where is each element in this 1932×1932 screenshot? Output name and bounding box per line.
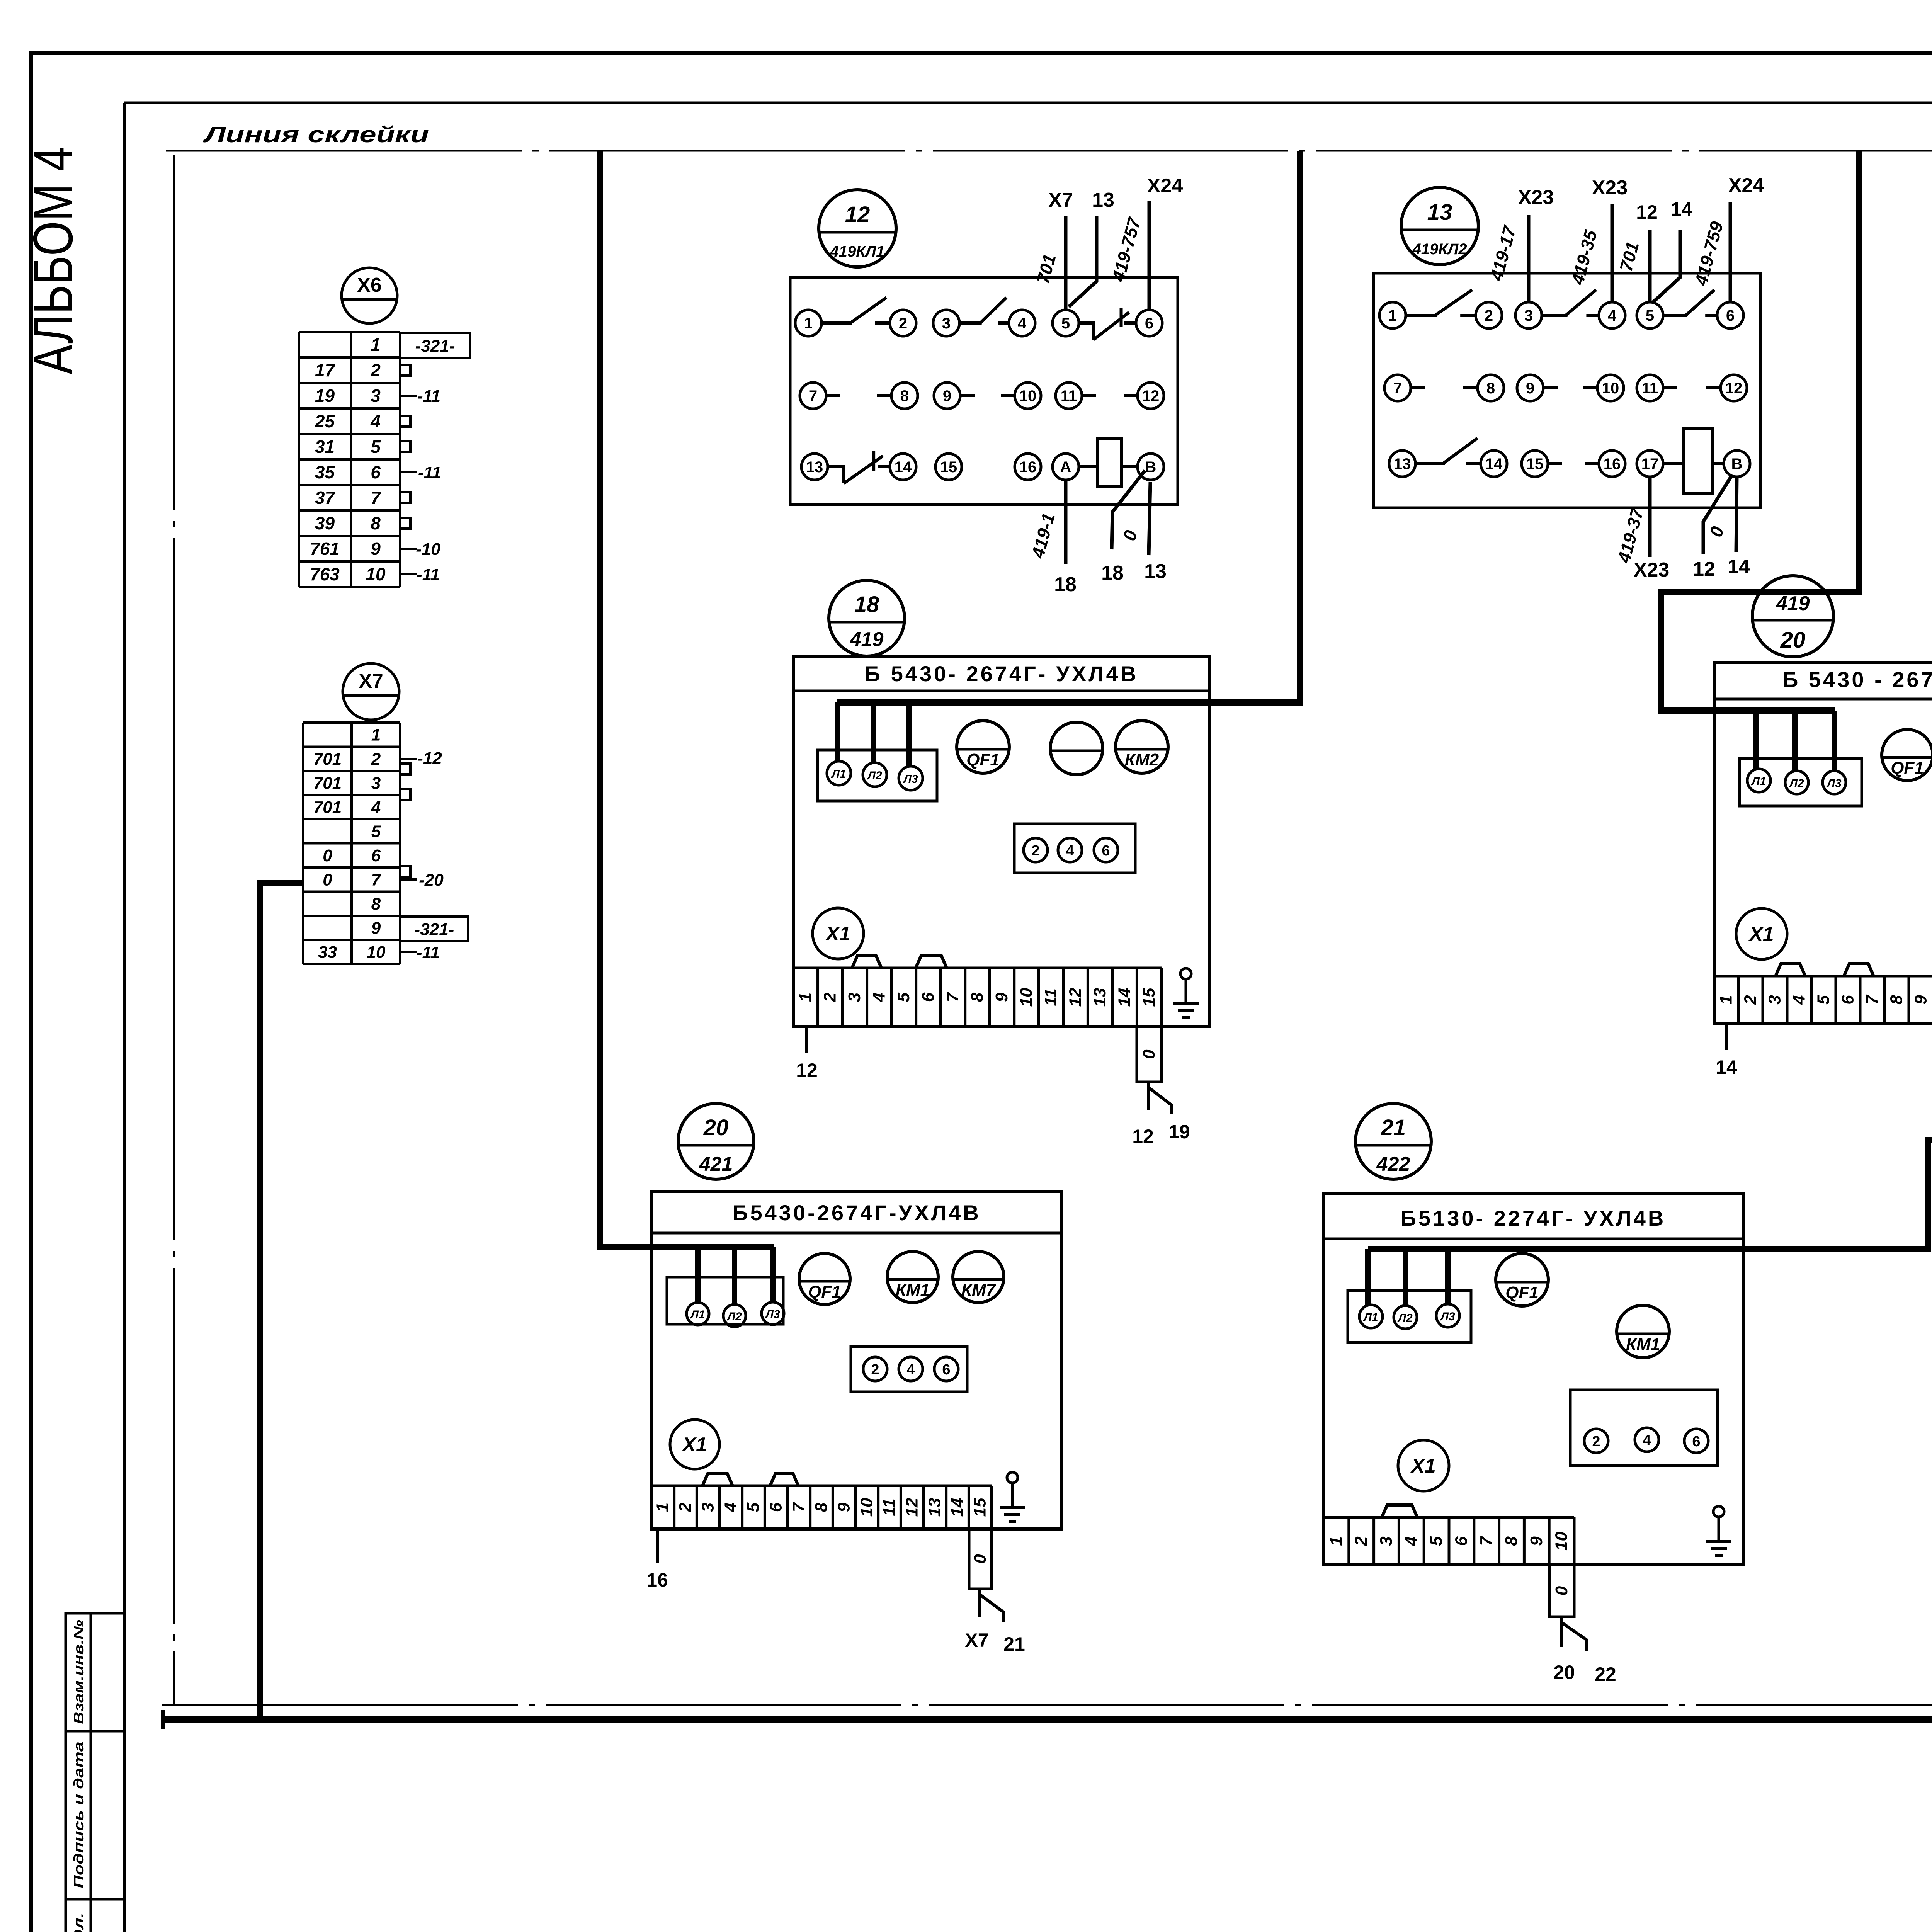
relay 13 contact 3-4 [1542, 314, 1568, 317]
svg-text:22: 22 [1595, 1663, 1616, 1685]
svg-text:7: 7 [1863, 994, 1882, 1005]
svg-text:QF1: QF1 [808, 1282, 841, 1301]
svg-text:6: 6 [1145, 315, 1153, 332]
svg-text:2: 2 [1352, 1536, 1371, 1546]
svg-text:14: 14 [1728, 556, 1750, 578]
svg-text:13: 13 [1092, 189, 1114, 211]
svg-text:4: 4 [721, 1503, 740, 1512]
relay 12 wire B down (0) to 13 [1149, 482, 1150, 555]
svg-text:B: B [1145, 459, 1156, 476]
svg-text:6: 6 [1692, 1434, 1700, 1450]
svg-text:КМ7: КМ7 [961, 1281, 997, 1299]
svg-text:X7: X7 [965, 1629, 988, 1651]
svg-text:АЛЬБОМ 4: АЛЬБОМ 4 [22, 146, 84, 374]
svg-text:X23: X23 [1518, 186, 1554, 209]
starter box 18/419 neutral wires [1147, 1082, 1150, 1110]
svg-text:8: 8 [1486, 380, 1495, 397]
glue line vertical left [173, 155, 175, 885]
svg-text:-321-: -321- [415, 920, 454, 939]
svg-text:0: 0 [323, 870, 332, 889]
svg-text:Л2: Л2 [867, 769, 882, 782]
starter box 419/20 body [1714, 662, 1932, 1024]
svg-text:3: 3 [1524, 307, 1533, 324]
svg-text:Л3: Л3 [765, 1308, 780, 1321]
svg-text:-11: -11 [417, 943, 440, 962]
starter box 21/422 circle QF1 [1496, 1253, 1548, 1306]
svg-text:11: 11 [880, 1498, 899, 1516]
starter box 21/422 terminal strip [1324, 1516, 1574, 1519]
svg-text:0: 0 [971, 1554, 990, 1564]
glue line horizontal bottom [162, 1704, 1932, 1706]
starter box 20/421 ground symbol [1007, 1472, 1018, 1483]
wire to box 419/20 via 419/20 node [1661, 151, 1859, 711]
svg-text:14: 14 [1485, 456, 1503, 473]
starter box 18/419 circle aux [1050, 722, 1103, 775]
svg-text:2: 2 [1485, 307, 1493, 324]
starter box 21/422 header [1324, 1238, 1743, 1240]
X7 tag -11 row10 [400, 951, 417, 953]
svg-text:14: 14 [1716, 1056, 1737, 1078]
svg-text:3: 3 [1377, 1536, 1396, 1546]
connector X7 circle [343, 663, 399, 720]
svg-text:Л2: Л2 [726, 1310, 742, 1323]
svg-text:6: 6 [1102, 843, 1110, 859]
relay 13 contact 1-2 [1406, 314, 1437, 317]
svg-text:5: 5 [1646, 307, 1654, 324]
svg-text:5: 5 [1814, 995, 1833, 1005]
svg-text:20: 20 [1780, 628, 1806, 653]
svg-text:4: 4 [1608, 307, 1617, 324]
svg-text:19: 19 [1168, 1121, 1190, 1143]
starter box 18/419 ground symbol [1180, 968, 1191, 979]
svg-text:3: 3 [942, 315, 951, 332]
svg-text:Л1: Л1 [1363, 1311, 1378, 1324]
relay 12 wire A down (419-1) to 18 [1064, 480, 1068, 564]
svg-text:1: 1 [653, 1503, 672, 1512]
svg-text:8: 8 [371, 895, 381, 913]
svg-text:X24: X24 [1728, 174, 1764, 197]
svg-text:2: 2 [820, 992, 839, 1002]
svg-text:2: 2 [1592, 1434, 1600, 1450]
svg-text:6: 6 [918, 992, 937, 1002]
svg-text:2: 2 [676, 1502, 695, 1512]
svg-text:12: 12 [1066, 988, 1085, 1007]
svg-text:10: 10 [367, 943, 386, 962]
svg-text:Л3: Л3 [903, 773, 918, 786]
starter box 21/422 ground symbol [1713, 1506, 1724, 1517]
wire drops box 18/419 [835, 702, 840, 762]
relay 13 wire pin5 bend to 14 [1653, 230, 1680, 302]
svg-text:Взам.инв.№: Взам.инв.№ [71, 1620, 87, 1724]
starter box 18/419 strip covers [852, 956, 881, 968]
svg-text:Л3: Л3 [1440, 1310, 1455, 1323]
svg-text:Б5430-2674Г-УХЛ4В: Б5430-2674Г-УХЛ4В [732, 1201, 981, 1225]
connector X6 circle [342, 268, 397, 323]
svg-text:5: 5 [371, 822, 381, 841]
X7 tag -12 row2 [400, 758, 417, 760]
bottom horizontal wire bus [163, 1716, 1932, 1723]
svg-text:3: 3 [371, 774, 381, 793]
svg-text:39: 39 [315, 513, 335, 533]
svg-text:2: 2 [899, 315, 907, 332]
svg-text:12: 12 [1142, 388, 1160, 405]
relay 12 pins row2 [800, 383, 826, 409]
svg-text:X23: X23 [1634, 559, 1670, 581]
svg-text:11: 11 [1061, 388, 1077, 405]
svg-text:Л2: Л2 [1397, 1312, 1413, 1325]
inner frame left line [123, 103, 126, 1932]
starter box 20/421 circle QF1 [799, 1253, 850, 1304]
svg-text:6: 6 [1838, 995, 1857, 1005]
svg-text:6: 6 [371, 846, 381, 865]
relay 13 wire pin6 to X24 (419-759) [1729, 202, 1732, 302]
relay block 13 body [1374, 273, 1760, 508]
svg-text:11: 11 [1041, 988, 1060, 1006]
starter box 18/419 connector X1 [813, 908, 864, 959]
starter box 20/421 connector X1 [670, 1420, 719, 1469]
svg-text:2: 2 [1031, 843, 1039, 859]
svg-text:4: 4 [906, 1362, 915, 1378]
svg-text:12: 12 [1132, 1126, 1154, 1147]
svg-text:3: 3 [699, 1503, 718, 1512]
svg-text:A: A [1060, 459, 1071, 476]
svg-text:13: 13 [1090, 988, 1109, 1007]
relay 12 wire pin5 to X7 (701) [1064, 216, 1068, 310]
svg-text:10: 10 [1017, 988, 1036, 1007]
svg-text:21: 21 [1003, 1633, 1025, 1655]
svg-text:КМ1: КМ1 [896, 1281, 930, 1299]
starter box 18/419 lamp terminals Л1 Л2 Л3 [818, 750, 937, 801]
starter box 21/422 connector X1 [1398, 1440, 1449, 1491]
svg-text:7: 7 [809, 388, 817, 405]
relay 13 pins row1 [1379, 302, 1406, 328]
svg-text:3: 3 [371, 386, 381, 406]
svg-text:1: 1 [1327, 1536, 1345, 1546]
svg-text:15: 15 [971, 1498, 990, 1517]
svg-text:-20: -20 [419, 871, 444, 889]
starter box 18/419 header [793, 690, 1210, 692]
svg-text:17: 17 [1641, 456, 1659, 473]
stamp box Подпись и дата [66, 1731, 124, 1899]
X6 tag -11 row3 [400, 395, 417, 397]
relay 13 wire pin17 down (419-37) to X23 [1648, 477, 1652, 557]
svg-text:15: 15 [1526, 456, 1544, 473]
stamp box Взам.инв.№ [66, 1613, 124, 1731]
starter box 21/422 neutral wires [1560, 1617, 1563, 1647]
svg-text:QF1: QF1 [966, 750, 1000, 769]
svg-text:9: 9 [1527, 1536, 1546, 1546]
svg-text:9: 9 [371, 539, 381, 559]
relay 12 row2 stubs [826, 394, 840, 397]
wire to box 20/421 (vertical from glue line) [600, 151, 774, 1247]
svg-text:Л1: Л1 [831, 768, 846, 781]
sheet ref circle 12/419КЛ1 [819, 190, 896, 267]
svg-text:5: 5 [371, 437, 381, 457]
svg-text:8: 8 [968, 992, 986, 1002]
svg-text:12: 12 [796, 1060, 818, 1081]
svg-text:КМ1: КМ1 [1626, 1335, 1660, 1354]
svg-text:5: 5 [1427, 1536, 1446, 1546]
relay 13 wire B down (0) to 14 [1736, 477, 1737, 552]
svg-text:Л2: Л2 [1789, 777, 1804, 790]
wire drops box 20/421 [695, 1247, 701, 1303]
svg-text:8: 8 [371, 513, 381, 533]
svg-text:20: 20 [1553, 1662, 1575, 1683]
relay 12 contact 13-14 [828, 467, 844, 483]
svg-text:Х1: Х1 [1410, 1455, 1436, 1477]
relay 13 row3 stubs [1548, 462, 1562, 465]
svg-text:Б 5430- 2674Г- УХЛ4В: Б 5430- 2674Г- УХЛ4В [865, 662, 1138, 686]
svg-text:8: 8 [1502, 1536, 1521, 1546]
X6 pin stubs [400, 365, 410, 376]
svg-text:1: 1 [371, 725, 381, 744]
svg-text:4: 4 [371, 798, 381, 817]
svg-text:4: 4 [370, 411, 381, 431]
svg-text:701: 701 [313, 750, 342, 769]
svg-text:16: 16 [1604, 456, 1621, 473]
X6 tag -10 row9 [400, 548, 417, 550]
svg-text:7: 7 [789, 1502, 808, 1512]
X6 tag -11 row10 [400, 573, 417, 575]
starter box 419/20 terminal strip [1714, 975, 1932, 978]
svg-text:1: 1 [796, 993, 815, 1002]
relay 13 wire B bend to 12 [1703, 475, 1732, 554]
relay 12 coil [1098, 439, 1121, 487]
svg-text:-11: -11 [417, 387, 440, 406]
svg-text:15: 15 [940, 459, 957, 476]
starter box 20/421 strip covers [702, 1473, 733, 1486]
sheet ref circle 13/419КЛ2 [1401, 187, 1478, 265]
relay 12 contact 3-4 [959, 321, 982, 325]
svg-text:5: 5 [744, 1502, 763, 1512]
svg-text:18: 18 [1101, 562, 1124, 584]
svg-text:7: 7 [371, 488, 381, 508]
relay 13 pins row3 [1389, 451, 1415, 477]
relay 12 wire B bend to 18 [1112, 471, 1145, 549]
starter box 419/20 connector X1 [1736, 908, 1787, 959]
svg-text:14: 14 [895, 459, 912, 476]
svg-text:15: 15 [1139, 988, 1158, 1007]
svg-text:9: 9 [943, 388, 951, 405]
relay 13 coil [1683, 429, 1713, 493]
relay 13 wire pin5 (701) to 12 [1648, 230, 1652, 302]
starter box 21/422 terminals 2 4 6 [1570, 1390, 1718, 1466]
svg-text:6: 6 [1726, 307, 1735, 324]
svg-text:9: 9 [371, 918, 381, 937]
svg-text:X23: X23 [1592, 177, 1628, 199]
svg-text:11: 11 [1642, 380, 1658, 397]
relay 13 wire pin4 to X23 (419-35) [1611, 204, 1614, 302]
sheet ref circle 21/422 [1355, 1104, 1431, 1179]
relay 12 contact 1-2 [821, 321, 852, 325]
svg-text:13: 13 [925, 1498, 944, 1517]
sheet ref circle 419/20 [1752, 576, 1833, 657]
relay 13 contact 5-6 [1663, 314, 1687, 317]
svg-text:19: 19 [315, 386, 335, 406]
svg-text:4: 4 [869, 993, 888, 1002]
svg-text:X7: X7 [1048, 189, 1073, 211]
svg-text:12: 12 [903, 1498, 922, 1517]
svg-text:1: 1 [804, 315, 813, 332]
svg-text:763: 763 [310, 564, 340, 584]
svg-text:10: 10 [1602, 380, 1619, 397]
starter box 20/421 header [651, 1232, 1062, 1235]
svg-text:21: 21 [1381, 1115, 1406, 1140]
svg-text:16: 16 [1019, 459, 1037, 476]
svg-text:10: 10 [1019, 388, 1037, 405]
X7 wire tag -321- row9 [400, 917, 468, 941]
svg-text:4: 4 [1018, 315, 1027, 332]
starter box 21/422 lamp terminals Л1 Л2 Л3 [1348, 1291, 1471, 1342]
svg-text:419: 419 [1776, 592, 1810, 615]
starter box 21/422 strip covers [1382, 1505, 1417, 1517]
starter box 419/20 strip covers [1776, 964, 1805, 976]
svg-text:Л3: Л3 [1826, 777, 1842, 790]
svg-text:9: 9 [1526, 380, 1534, 397]
svg-text:-321-: -321- [415, 337, 455, 355]
svg-text:4: 4 [1402, 1536, 1421, 1546]
svg-text:8: 8 [812, 1502, 831, 1512]
relay 12 pins row1 [795, 310, 821, 336]
svg-text:5: 5 [894, 992, 913, 1002]
svg-text:2: 2 [370, 360, 381, 380]
svg-text:12: 12 [845, 202, 870, 227]
svg-text:25: 25 [315, 411, 335, 431]
starter box 20/421 circle КМ1 [887, 1252, 938, 1303]
glue line horizontal top [166, 150, 1932, 152]
relay block 12 body [790, 277, 1178, 505]
starter box 20/421 neutral wires [978, 1589, 981, 1617]
stamp box Инв.№подл. [66, 1899, 124, 1932]
starter box 18/419 terminals 2 4 6 [1014, 824, 1135, 873]
svg-text:0: 0 [1552, 1586, 1571, 1595]
starter box 21/422 body [1324, 1193, 1743, 1565]
svg-text:35: 35 [315, 462, 335, 482]
starter box 21/422 circle КМ1 [1617, 1305, 1669, 1358]
relay 13 wire pin3 to X23 (419-17) [1527, 215, 1531, 302]
svg-text:4: 4 [1643, 1432, 1651, 1449]
inner frame top line [124, 102, 1932, 104]
svg-text:-10: -10 [416, 540, 440, 559]
starter box 18/419 circle КМ2 [1116, 721, 1168, 773]
X7 pin stubs [400, 764, 410, 774]
svg-text:Подпись и дата: Подпись и дата [71, 1742, 87, 1888]
starter box 20/421 circle КМ7 [953, 1252, 1004, 1303]
svg-text:0: 0 [1139, 1049, 1158, 1059]
svg-text:Б5130- 2274Г- УХЛ4В: Б5130- 2274Г- УХЛ4В [1401, 1206, 1666, 1230]
relay 12 wire pin6 to X24 (419-757) [1148, 201, 1151, 310]
svg-text:B: B [1731, 456, 1743, 473]
starter box 20/421 neutral cell 0 [969, 1529, 992, 1589]
starter box 18/419 terminal strip [793, 967, 1162, 969]
svg-text:31: 31 [315, 437, 335, 457]
svg-text:761: 761 [310, 539, 340, 559]
svg-text:Х7: Х7 [359, 670, 383, 692]
svg-text:7: 7 [1477, 1536, 1496, 1546]
svg-text:14: 14 [1671, 198, 1692, 220]
svg-text:701: 701 [313, 798, 342, 817]
svg-text:14: 14 [948, 1498, 967, 1517]
svg-text:6: 6 [942, 1362, 950, 1378]
svg-text:18: 18 [854, 592, 879, 617]
svg-text:-12: -12 [417, 749, 442, 768]
starter box 419/20 circle QF1 [1882, 730, 1932, 781]
svg-text:4: 4 [1790, 995, 1809, 1005]
svg-text:10: 10 [366, 564, 386, 584]
wire drops box 21/422 [1365, 1249, 1371, 1305]
starter box 21/422 neutral cell 0 [1549, 1565, 1574, 1617]
sheet ref circle 18/419 [829, 580, 905, 656]
svg-text:419КЛ1: 419КЛ1 [830, 243, 884, 260]
svg-text:12: 12 [1725, 380, 1743, 397]
X6 wire tag -321- [400, 333, 470, 358]
wire to box 18/419 (vertical from glue line) [837, 151, 1300, 702]
svg-text:Х6: Х6 [357, 274, 382, 296]
svg-text:1: 1 [371, 335, 381, 355]
bottom wire end tick [161, 1710, 165, 1729]
svg-text:7: 7 [943, 992, 962, 1002]
svg-text:13: 13 [1427, 200, 1452, 225]
wire drops box 419/20 [1753, 711, 1759, 769]
relay 13 contact 13-14 [1415, 462, 1445, 465]
relay 12 wire pin5 bend (13) [1069, 216, 1097, 307]
svg-text:Л1: Л1 [690, 1308, 705, 1321]
svg-text:33: 33 [318, 943, 337, 962]
starter box 20/421 terminals 2 4 6 [851, 1347, 967, 1392]
svg-text:1: 1 [1717, 995, 1736, 1004]
svg-text:13: 13 [806, 459, 823, 476]
svg-text:10: 10 [857, 1498, 876, 1517]
terminal table X6 [299, 331, 400, 333]
svg-text:4: 4 [1066, 843, 1074, 859]
svg-text:Л1: Л1 [1751, 775, 1766, 788]
starter box 20/421 terminal strip [651, 1485, 992, 1487]
relay 13 pins row2 [1384, 375, 1411, 401]
X6 tag -11 row6 [400, 471, 417, 473]
terminal table X7 [303, 721, 400, 724]
relay 12 contact 5-6 [1079, 323, 1094, 340]
starter box 419/20 cell1 wire [1725, 1024, 1728, 1050]
svg-text:9: 9 [992, 992, 1011, 1002]
svg-text:6: 6 [767, 1502, 786, 1512]
starter box 18/419 body [793, 656, 1210, 1027]
svg-text:17: 17 [315, 360, 336, 380]
svg-text:КМ2: КМ2 [1125, 750, 1159, 769]
svg-text:-11: -11 [417, 565, 440, 584]
svg-text:QF1: QF1 [1891, 759, 1924, 777]
svg-text:QF1: QF1 [1505, 1283, 1539, 1302]
svg-text:-11: -11 [418, 463, 441, 482]
svg-text:6: 6 [1452, 1536, 1471, 1546]
starter box 18/419 neutral cell 0 [1137, 1027, 1162, 1082]
svg-text:8: 8 [1887, 995, 1906, 1005]
starter box 20/421 lamp terminals Л1 Л2 Л3 [667, 1277, 783, 1324]
svg-text:7: 7 [1393, 380, 1402, 397]
svg-text:13: 13 [1144, 560, 1167, 583]
wire from X7 pin7 to bottom bus [260, 883, 303, 1719]
svg-text:Х1: Х1 [825, 923, 850, 945]
svg-text:3: 3 [845, 993, 864, 1002]
svg-text:3: 3 [1765, 995, 1784, 1004]
starter box 20/421 body [651, 1191, 1062, 1529]
svg-text:16: 16 [646, 1569, 668, 1591]
svg-text:2: 2 [871, 1362, 879, 1378]
wire from box 21/422 bus to 422 node [1368, 1140, 1932, 1249]
svg-text:Б 5430 - 2674Г- УХЛ4В: Б 5430 - 2674Г- УХЛ4В [1782, 667, 1932, 692]
svg-text:422: 422 [1376, 1153, 1410, 1175]
starter box 419/20 lamp terminals Л1 Л2 Л3 [1740, 759, 1862, 806]
svg-text:12: 12 [1693, 558, 1715, 580]
